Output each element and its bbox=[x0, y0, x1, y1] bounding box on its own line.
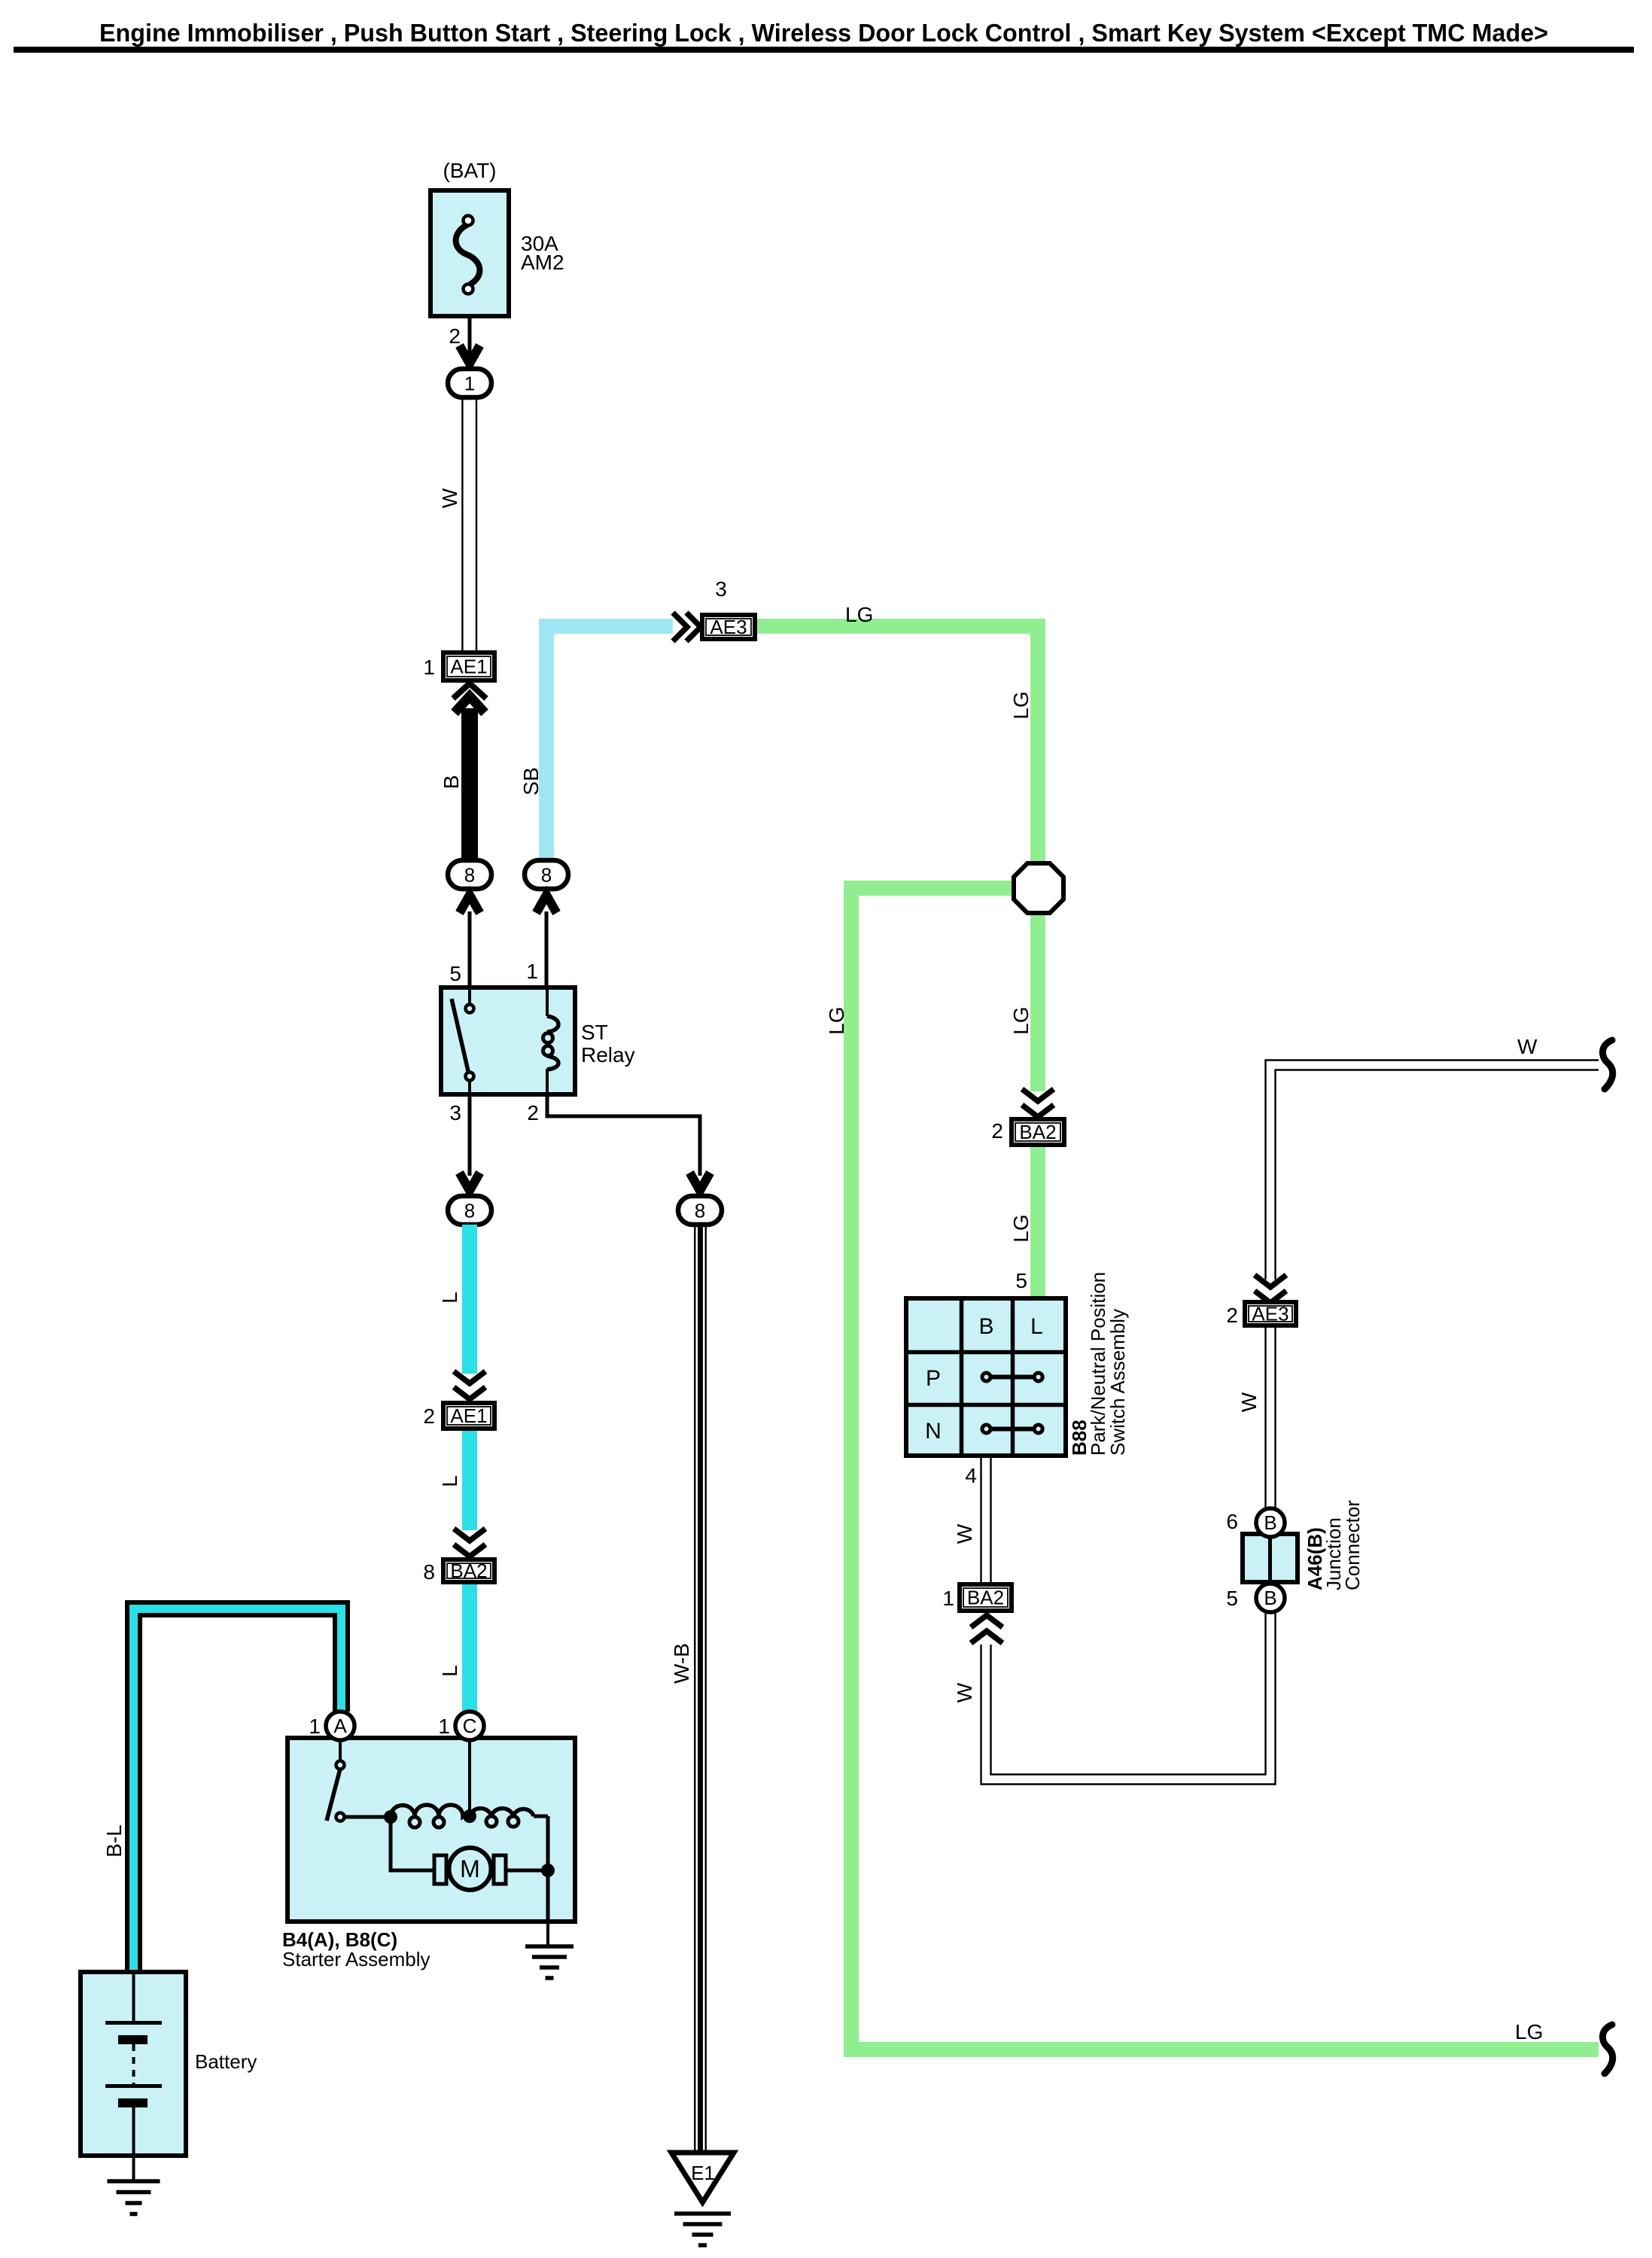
wire to relay pin 1 bbox=[545, 911, 549, 987]
junction dot C bbox=[463, 1809, 476, 1823]
svg-text:N: N bbox=[925, 1419, 942, 1444]
svg-text:8: 8 bbox=[464, 864, 475, 887]
wire Y to ground bbox=[546, 1870, 550, 1922]
svg-text:M: M bbox=[460, 1855, 480, 1882]
arrow into oval 8 (pin2) bbox=[690, 1173, 710, 1191]
wire LG octagon to BA2-2 bbox=[1030, 915, 1045, 1091]
connector oval 8 (SB) bbox=[525, 860, 568, 889]
svg-text:L: L bbox=[1030, 1314, 1043, 1339]
svg-text:2: 2 bbox=[991, 1119, 1003, 1143]
svg-text:3: 3 bbox=[715, 577, 727, 601]
relay switch bbox=[468, 987, 471, 1004]
B88 contact P bbox=[987, 1375, 1039, 1380]
svg-text:1: 1 bbox=[309, 1715, 321, 1738]
svg-text:W: W bbox=[1237, 1392, 1261, 1412]
fuse AM2 element bbox=[456, 224, 480, 285]
connector AE1 pin 2 bbox=[443, 1403, 494, 1429]
svg-text:B: B bbox=[978, 1314, 993, 1339]
wire X to motor bbox=[391, 1817, 434, 1870]
starter switch bbox=[339, 1741, 342, 1761]
svg-text:2: 2 bbox=[1226, 1304, 1238, 1327]
svg-text:L: L bbox=[438, 1475, 461, 1487]
svg-text:B: B bbox=[1264, 1587, 1276, 1609]
svg-text:8: 8 bbox=[695, 1200, 705, 1222]
svg-text:AE3: AE3 bbox=[1252, 1303, 1288, 1325]
svg-text:8: 8 bbox=[464, 1200, 475, 1222]
svg-text:W: W bbox=[953, 1682, 976, 1703]
chevron AE3-2 bbox=[1255, 1275, 1286, 1287]
wire relay pin 2 bbox=[547, 1094, 700, 1176]
svg-text:E1: E1 bbox=[691, 2162, 715, 2184]
junction connector A46 box bbox=[1243, 1534, 1298, 1582]
chevron AE1-1 bbox=[453, 683, 486, 698]
svg-text:2: 2 bbox=[423, 1404, 435, 1428]
svg-text:1: 1 bbox=[438, 1715, 450, 1738]
chevron AE1-2 bbox=[454, 1371, 485, 1383]
chevron BA2-8 bbox=[454, 1529, 485, 1541]
svg-text:5: 5 bbox=[1015, 1269, 1027, 1292]
connector AE1 pin 1 bbox=[443, 653, 494, 680]
wire relay pin 3 bbox=[468, 1094, 472, 1176]
svg-text:ST: ST bbox=[581, 1021, 608, 1044]
B88 grid lines bbox=[960, 1298, 964, 1456]
svg-text:LG: LG bbox=[1515, 2020, 1543, 2043]
wire LG BA2-2 to B88 bbox=[1030, 1147, 1045, 1300]
fuse AM2 box bbox=[430, 190, 509, 316]
chevron BA2-1 bbox=[971, 1615, 1002, 1627]
wire coil2 down bbox=[546, 1816, 550, 1870]
starter coil 1 bbox=[391, 1805, 415, 1817]
wire LG octagon left branch bbox=[851, 888, 1599, 2050]
wire to relay pin 5 bbox=[468, 911, 472, 987]
svg-text:5: 5 bbox=[1226, 1587, 1238, 1610]
junction dot X bbox=[384, 1810, 397, 1824]
svg-text:LG: LG bbox=[1009, 1214, 1033, 1242]
B88 contact N bbox=[987, 1427, 1039, 1432]
wire C to coil junction bbox=[468, 1741, 471, 1816]
svg-text:5: 5 bbox=[449, 962, 461, 985]
svg-text:W: W bbox=[1517, 1035, 1538, 1058]
battery ground stub bbox=[132, 2156, 135, 2181]
connector circle C bbox=[455, 1712, 484, 1740]
svg-text:4: 4 bbox=[965, 1464, 977, 1487]
ground E1 lines bbox=[674, 2211, 731, 2216]
arrow into oval 8 (pin3) bbox=[460, 1173, 480, 1191]
svg-text:Starter Assembly: Starter Assembly bbox=[282, 1948, 430, 1970]
component starter box bbox=[288, 1738, 575, 1922]
wire W U-turn bbox=[981, 1613, 1276, 1785]
svg-text:2: 2 bbox=[449, 324, 461, 348]
connector oval 8 (pin2) bbox=[678, 1196, 722, 1225]
wire B (thick black) bbox=[461, 708, 478, 862]
component B88 box bbox=[906, 1298, 1066, 1456]
svg-text:(BAT): (BAT) bbox=[443, 159, 496, 182]
svg-text:L: L bbox=[438, 1292, 461, 1304]
svg-text:BA2: BA2 bbox=[967, 1587, 1004, 1609]
svg-text:LG: LG bbox=[845, 603, 873, 626]
starter coil 2 bbox=[470, 1809, 491, 1816]
wire L BA2-8 to starter C bbox=[462, 1584, 477, 1712]
svg-text:LG: LG bbox=[825, 1006, 848, 1034]
wire LG top bbox=[757, 626, 1038, 863]
title underline bbox=[14, 47, 1634, 53]
svg-text:LG: LG bbox=[1009, 691, 1033, 719]
svg-text:B-L: B-L bbox=[102, 1824, 126, 1858]
wire L AE1-2 to BA2-8 bbox=[462, 1431, 477, 1530]
connector oval 1 bbox=[448, 369, 491, 397]
svg-text:8: 8 bbox=[541, 864, 552, 887]
connector BA2 pin 1 bbox=[960, 1584, 1012, 1611]
connector circle B pin 6 bbox=[1256, 1508, 1285, 1537]
connector AE3 pin 2 bbox=[1245, 1302, 1296, 1325]
svg-text:1: 1 bbox=[942, 1587, 954, 1610]
wire W off-page bbox=[1266, 1061, 1599, 1280]
wire L oval to AE1-2 bbox=[462, 1225, 477, 1374]
relay coil bbox=[546, 987, 549, 1016]
svg-text:LG: LG bbox=[1009, 1006, 1033, 1034]
svg-text:C: C bbox=[463, 1715, 477, 1737]
svg-text:8: 8 bbox=[423, 1560, 435, 1584]
wire B-L bbox=[134, 1609, 342, 1973]
splice octagon bbox=[1014, 863, 1063, 913]
component ST relay box bbox=[441, 987, 575, 1094]
svg-text:P: P bbox=[926, 1366, 941, 1391]
ground battery lines bbox=[108, 2179, 160, 2183]
svg-text:W: W bbox=[953, 1523, 976, 1544]
arrow into oval 8 left bbox=[460, 895, 480, 913]
svg-text:AE3: AE3 bbox=[710, 616, 747, 638]
wire fuse pin 2 bbox=[468, 316, 472, 354]
svg-text:BA2: BA2 bbox=[1019, 1121, 1056, 1143]
svg-text:Connector: Connector bbox=[1341, 1500, 1364, 1590]
svg-text:BA2: BA2 bbox=[450, 1560, 487, 1582]
wire W AE3-2 to A46-6 bbox=[1264, 1328, 1266, 1508]
squiggle W off-page bbox=[1602, 1040, 1612, 1089]
svg-text:W: W bbox=[438, 488, 461, 508]
connector BA2 pin 2 bbox=[1012, 1119, 1064, 1145]
svg-text:B: B bbox=[1264, 1511, 1276, 1534]
motor M bbox=[434, 1855, 446, 1884]
svg-text:2: 2 bbox=[527, 1101, 539, 1124]
ground E1 triangle bbox=[671, 2153, 734, 2202]
squiggle LG bottom bbox=[1602, 2025, 1612, 2074]
wire motor to Y bbox=[506, 1869, 548, 1873]
svg-text:W-B: W-B bbox=[670, 1643, 693, 1684]
svg-text:AE1: AE1 bbox=[450, 656, 487, 678]
svg-text:3: 3 bbox=[449, 1101, 461, 1124]
chevron BA2-2 bbox=[1022, 1089, 1054, 1101]
svg-text:1: 1 bbox=[464, 373, 475, 395]
svg-text:Switch Assembly: Switch Assembly bbox=[1106, 1309, 1129, 1456]
arrow into connector 1 bbox=[460, 345, 480, 364]
svg-text:SB: SB bbox=[519, 767, 543, 795]
wire W (double line) bbox=[461, 397, 463, 652]
svg-text:1: 1 bbox=[526, 960, 538, 983]
svg-text:Relay: Relay bbox=[581, 1043, 635, 1067]
svg-text:Engine Immobiliser , Push Butt: Engine Immobiliser , Push Button Start ,… bbox=[99, 19, 1548, 47]
connector circle B pin 5 bbox=[1256, 1584, 1285, 1612]
junction dot Y bbox=[541, 1864, 555, 1877]
wire W-B bbox=[694, 1225, 695, 2150]
connector BA2 pin 8 bbox=[443, 1560, 494, 1582]
arrow into oval 8 SB bbox=[537, 895, 557, 913]
svg-text:1: 1 bbox=[423, 656, 435, 679]
connector oval 8 (left) bbox=[448, 860, 491, 889]
svg-text:AM2: AM2 bbox=[521, 251, 564, 274]
chevron AE3-3 bbox=[673, 613, 687, 641]
connector oval 8 (pin3) bbox=[448, 1196, 491, 1225]
wire SB bbox=[546, 626, 673, 861]
wire W B88-4 to BA2-1 bbox=[980, 1456, 981, 1583]
svg-text:B: B bbox=[440, 775, 463, 790]
svg-text:AE1: AE1 bbox=[450, 1404, 487, 1427]
svg-text:L: L bbox=[438, 1665, 461, 1677]
battery internals bbox=[132, 1972, 135, 2022]
arrowhead wire B bbox=[455, 696, 485, 713]
svg-text:Battery: Battery bbox=[195, 2050, 257, 2073]
connector circle A bbox=[326, 1712, 354, 1740]
connector AE3 pin 3 bbox=[702, 615, 755, 639]
starter ground stub bbox=[546, 1922, 549, 1946]
component battery box bbox=[81, 1972, 186, 2156]
ground starter lines bbox=[525, 1944, 573, 1949]
svg-text:A: A bbox=[333, 1715, 347, 1737]
svg-text:6: 6 bbox=[1226, 1510, 1238, 1533]
